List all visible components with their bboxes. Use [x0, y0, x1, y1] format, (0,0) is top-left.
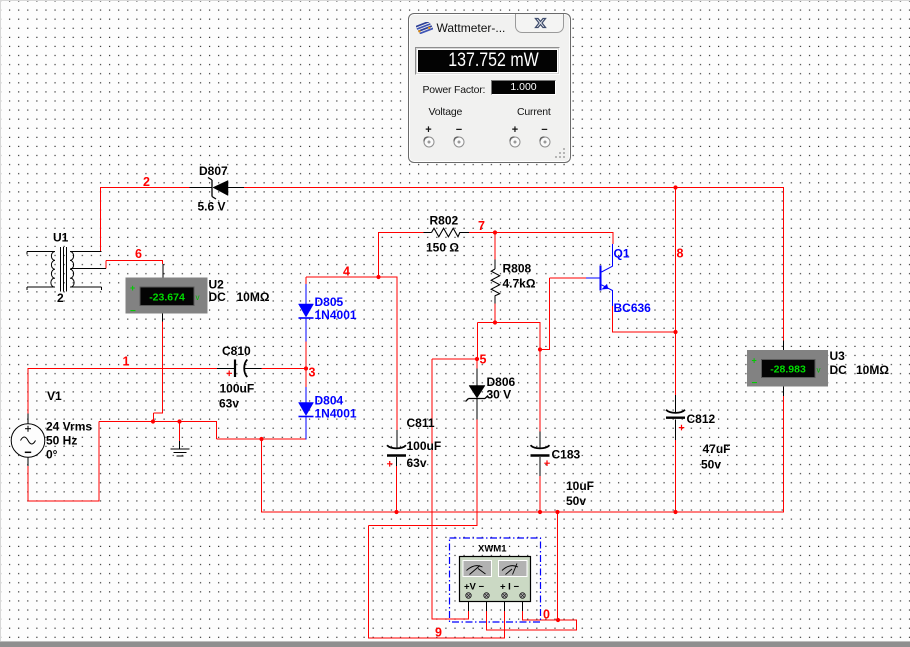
wire down to C183 top: [539, 323, 541, 432]
wire U3 minus stub: [783, 387, 785, 397]
wattmeter terminal: [520, 593, 525, 598]
junction dot: [556, 618, 560, 622]
capacitor C810 100uF 63v: [235, 360, 247, 378]
capacitor C183 polarity plus: [544, 460, 550, 466]
capacitor C811 100uF 63v: [387, 445, 406, 455]
wire ground bus to D804: [217, 438, 307, 440]
svg-text:-23.674: -23.674: [149, 292, 185, 304]
wire R808 top lead: [494, 260, 496, 270]
svg-text:50v: 50v: [566, 494, 586, 508]
power factor row: [423, 84, 486, 96]
svg-text:1N4001: 1N4001: [315, 407, 357, 421]
wire ground bus: [99, 421, 217, 423]
wire D806 anode down: [476, 419, 478, 526]
wattmeter terminal: [484, 593, 489, 598]
svg-text:100uF: 100uF: [220, 382, 255, 396]
junction dot: [538, 510, 542, 514]
wire node7 left of R802: [379, 232, 424, 234]
wire V1 minus bottom: [28, 500, 100, 502]
junction dot: [376, 275, 380, 279]
wire node4 horizontal: [306, 276, 398, 278]
svg-text:10MΩ: 10MΩ: [237, 290, 270, 304]
wire node4 to D805: [305, 277, 307, 284]
capacitor C810 polarity plus: [227, 371, 233, 377]
wire wattmeter V+ horizontal: [432, 618, 469, 620]
wire C811 bottom to bus: [396, 466, 398, 513]
wire node9 horizontal: [369, 525, 478, 527]
junction dot: [673, 510, 677, 514]
wire wattmeter I- horizontal: [523, 619, 578, 621]
transistor Q1 BC636 (PNP): [586, 244, 613, 306]
wire wattmeter V+ down: [468, 611, 470, 620]
resistor R808 4.7kohm: [491, 269, 500, 296]
svg-text:C183: C183: [552, 448, 581, 462]
wire node3 from C810 to diodes: [261, 368, 307, 370]
capacitor C183 10uF 50v: [531, 445, 550, 455]
svg-text:R808: R808: [503, 262, 532, 276]
wire node5 to D806: [476, 359, 478, 370]
wire R808 top: [494, 232, 496, 260]
wire wattmeter V- down: [486, 611, 488, 631]
wire U3 minus down to bus: [783, 396, 785, 513]
wire node6 tap up: [105, 261, 107, 269]
diode D807 (zener 5.6V): [208, 178, 228, 200]
junction dot: [177, 419, 181, 423]
junction dot: [151, 419, 155, 423]
svg-text:+: +: [752, 356, 757, 366]
diode D804: [299, 387, 314, 440]
wire node0 bottom bus: [262, 511, 785, 513]
wire node6 into U2: [162, 260, 164, 264]
capacitor C812 47uF 50v: [666, 410, 685, 418]
svg-text:U1: U1: [53, 231, 69, 245]
svg-text:2: 2: [143, 175, 150, 189]
wire wattmeter I+ down: [504, 611, 506, 639]
wire node5 down to wattmeter V+: [431, 359, 433, 620]
wire C183 top lead: [539, 432, 541, 449]
wire ground stem black: [179, 441, 181, 449]
wire U2 minus down: [162, 321, 164, 414]
wire C811 bottom lead: [396, 457, 398, 466]
svg-text:4.7kΩ: 4.7kΩ: [503, 277, 536, 291]
svg-text:R802: R802: [430, 214, 459, 228]
svg-text:3: 3: [309, 366, 316, 380]
wire Q1 emitter to node8: [613, 331, 677, 333]
wire node5 horizontal: [432, 358, 478, 360]
wire C810 right lead: [245, 368, 262, 370]
svg-text:+V −: +V −: [464, 582, 485, 593]
wire node0 drop right: [557, 512, 559, 621]
wire Q1 base jog: [540, 349, 551, 351]
svg-text:D804: D804: [315, 394, 344, 408]
wire node7 branch down to node4: [378, 232, 380, 277]
wire V1 minus down: [27, 466, 29, 502]
svg-text:8: 8: [677, 247, 684, 261]
svg-text:63v: 63v: [407, 456, 427, 470]
wattmeter terminal: [466, 593, 471, 598]
junction dot: [259, 437, 263, 441]
svg-text:BC636: BC636: [614, 301, 652, 315]
svg-text:V1: V1: [47, 389, 62, 403]
voltmeter U2: [126, 278, 208, 318]
wattmeter instrument XWM1: [450, 538, 541, 622]
svg-text:C812: C812: [687, 412, 716, 426]
junction dot: [493, 320, 497, 324]
junction dot: [394, 510, 398, 514]
wattmeter terminal: [502, 593, 507, 598]
junction dot: [475, 357, 479, 361]
wire wattmeter terminal1 stub: [468, 601, 470, 611]
transformer U1: [27, 247, 106, 292]
svg-text:−: −: [130, 306, 136, 317]
svg-text:9: 9: [435, 626, 442, 640]
svg-text:10uF: 10uF: [566, 479, 594, 493]
wire C183 bottom lead: [539, 457, 541, 476]
resistor R802 150ohm: [432, 228, 460, 237]
svg-text:1: 1: [123, 355, 130, 369]
svg-text:v: v: [817, 366, 821, 375]
wire node8 right down to U3: [783, 187, 785, 341]
wire node0 drop to bottom bus: [261, 439, 263, 513]
wire D806 bottom lead: [476, 399, 478, 420]
svg-text:47uF: 47uF: [703, 442, 731, 456]
svg-text:D805: D805: [315, 295, 344, 309]
capacitor C811 polarity plus: [387, 461, 393, 467]
wire U2 minus to bus: [153, 413, 155, 422]
svg-text:10MΩ: 10MΩ: [856, 363, 889, 377]
wire V1 plus up: [27, 368, 29, 414]
wire R802 right lead: [460, 232, 470, 234]
wire Q1 base: [550, 277, 587, 279]
svg-text:5: 5: [480, 353, 487, 367]
svg-text:50v: 50v: [701, 458, 721, 472]
svg-text:DC: DC: [209, 290, 227, 304]
voltmeter U3: [747, 350, 828, 389]
wire node2 top: [100, 187, 190, 189]
power display 137.752 mW: [415, 47, 560, 76]
wire wattmeter terminal2 stub: [486, 601, 488, 611]
wire Q1 emitter down: [612, 305, 614, 333]
wire C183 bottom to bus: [539, 476, 541, 513]
junction dot: [304, 366, 308, 370]
svg-text:DC: DC: [830, 363, 848, 377]
wire node8 to C812 top: [675, 187, 677, 395]
wire D806 top lead: [476, 369, 478, 387]
svg-text:+ I −: + I −: [500, 582, 519, 593]
wire U2 minus jog: [154, 412, 164, 414]
wire V1 minus up to ground bus: [98, 422, 100, 502]
capacitor C812 polarity plus: [679, 425, 685, 431]
wire node9 bottom: [369, 637, 506, 639]
svg-text:D807: D807: [199, 164, 228, 178]
junction dot: [555, 510, 559, 514]
dialog title: [437, 21, 506, 35]
svg-text:7: 7: [478, 219, 485, 233]
wire R808 bottom: [494, 303, 496, 323]
wire R808 bottom lead: [494, 296, 496, 304]
wire U2 minus stub: [162, 314, 164, 322]
horizontal scrollbar: [0, 641, 910, 647]
svg-text:0: 0: [543, 608, 550, 622]
svg-text:63v: 63v: [219, 397, 239, 411]
svg-text:v: v: [196, 293, 200, 302]
svg-text:C811: C811: [407, 416, 435, 430]
svg-text:24 Vrms: 24 Vrms: [46, 420, 92, 434]
wire node9 left vertical: [368, 526, 370, 639]
svg-text:0°: 0°: [46, 448, 58, 462]
voltage source V1: [11, 424, 45, 458]
wire node3 vertical between diodes: [305, 341, 307, 387]
wire node2 vertical: [100, 187, 102, 252]
wire Q1 base drop: [549, 278, 551, 350]
junction dot: [673, 330, 677, 334]
wattmeter dialog window: [408, 13, 571, 163]
svg-text:C810: C810: [222, 344, 251, 358]
svg-text:−: −: [752, 378, 758, 389]
junction dot: [673, 185, 677, 189]
wire wattmeter terminal3 stub: [504, 601, 506, 611]
svg-text:U3: U3: [830, 349, 846, 363]
wire wattmeter V- horizontal: [487, 629, 578, 631]
svg-text:30 V: 30 V: [487, 388, 512, 402]
svg-text:6: 6: [135, 247, 142, 261]
wire C810 left lead: [217, 368, 235, 370]
wire R802 left lead: [424, 232, 432, 234]
svg-text:Q1: Q1: [614, 247, 630, 261]
svg-text:XWM1: XWM1: [478, 544, 507, 555]
svg-text:5.6 V: 5.6 V: [198, 200, 226, 214]
wire wattmeter I- down: [522, 611, 524, 621]
wire node5 upper horizontal: [478, 322, 541, 324]
svg-text:4: 4: [343, 265, 350, 279]
wire U2 plus stub: [162, 264, 164, 278]
junction dot: [538, 347, 542, 351]
wire V1 top stub: [27, 414, 29, 425]
wire node7 right of R802: [469, 232, 614, 234]
wire U3 plus stub: [783, 341, 785, 351]
wire node8 top: [244, 187, 785, 189]
wire V1 bottom stub: [27, 457, 29, 466]
wire D807 right lead: [228, 187, 244, 189]
wire node6 horizontal: [106, 260, 163, 262]
wire C812 bottom to bus: [675, 440, 677, 513]
ground: [171, 449, 190, 456]
wire C811 top lead: [396, 430, 398, 448]
wire ground stem: [179, 421, 181, 441]
wire node5 left drop: [477, 323, 479, 360]
junction dot: [493, 230, 497, 234]
diode D805: [299, 284, 314, 342]
svg-text:+: +: [130, 283, 135, 293]
svg-text:-28.983: -28.983: [770, 364, 806, 376]
svg-text:100uF: 100uF: [407, 439, 442, 453]
svg-text:2: 2: [57, 291, 64, 305]
wire node4 to C811 top: [396, 277, 398, 431]
wire node1 from V1 to C810: [28, 368, 218, 370]
wire C812 bottom lead: [675, 420, 677, 441]
svg-text:1N4001: 1N4001: [315, 308, 357, 322]
wire D807 left lead: [190, 187, 213, 189]
wire wattmeter terminal4 stub: [522, 601, 524, 611]
svg-text:150 Ω: 150 Ω: [426, 241, 459, 255]
wire node7 to Q1 collector: [612, 232, 614, 244]
wire C812 top lead: [675, 395, 677, 413]
diode D806 (zener 30V): [466, 386, 489, 402]
svg-text:50 Hz: 50 Hz: [46, 434, 77, 448]
wire node0 step: [576, 620, 578, 631]
wire ground bus step down: [216, 422, 218, 440]
